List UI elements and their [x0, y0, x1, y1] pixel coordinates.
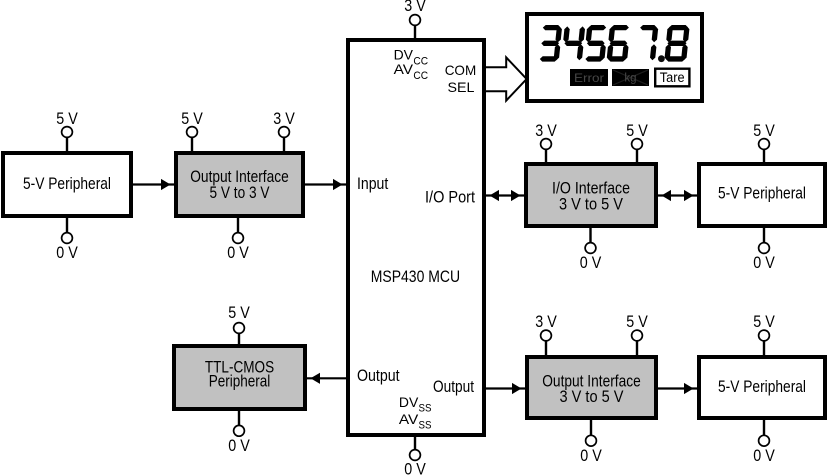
pin label Output (left) — [357, 366, 400, 385]
label: MSP430 MCU — [371, 267, 460, 286]
svg-text:3 V: 3 V — [535, 312, 557, 331]
block: Output Interface 3V to 5V — [527, 357, 656, 418]
wire: MCU output to TTL-CMOS peripheral — [307, 373, 346, 384]
terminal 0V of output interface 3-5 — [580, 418, 602, 465]
svg-text:5 V: 5 V — [626, 312, 648, 331]
terminal 3V of output interface 5-3 — [273, 109, 295, 153]
pin label AVCC — [394, 62, 429, 82]
wire: output interface 3-5 to peripheral — [658, 383, 697, 394]
pin label SEL — [448, 80, 475, 95]
svg-text:0 V: 0 V — [753, 446, 775, 465]
block: MSP430 MCU — [348, 40, 484, 435]
svg-text:Output: Output — [357, 366, 400, 385]
svg-text:0 V: 0 V — [56, 243, 78, 262]
block: 5-V Peripheral (top left) — [3, 153, 131, 216]
terminal 0V of TTL-CMOS peripheral — [228, 409, 250, 455]
terminal 0V of top-right peripheral — [753, 226, 775, 272]
terminal 0V of output interface 5-3 — [227, 216, 249, 262]
LCD annunciator kg — [612, 69, 649, 86]
svg-text:5-V Peripheral: 5-V Peripheral — [718, 377, 806, 396]
block: I/O Interface 3V to 5V — [526, 164, 656, 226]
svg-text:5 V: 5 V — [753, 121, 775, 140]
svg-text:kg: kg — [624, 73, 636, 85]
LCD display frame — [527, 14, 702, 101]
svg-text:SEL: SEL — [448, 80, 475, 95]
terminal 5V of output interface 5-3 — [181, 109, 203, 153]
svg-text:0 V: 0 V — [404, 460, 426, 475]
LCD annunciator Tare — [655, 69, 689, 87]
terminal 5V of bottom-right peripheral — [753, 312, 775, 357]
svg-text:Input: Input — [357, 174, 389, 193]
pin label DVCC — [394, 48, 429, 68]
terminal 5V of top-right peripheral — [753, 121, 775, 164]
terminal 0V of MCU — [404, 435, 426, 475]
svg-text:5-V Peripheral: 5-V Peripheral — [718, 184, 806, 203]
svg-text:0 V: 0 V — [753, 253, 775, 272]
label: Output Interface 3 V to 5 V — [542, 371, 641, 406]
terminal 5V of output interface 3-5 — [626, 312, 648, 357]
svg-text:CC: CC — [413, 56, 428, 68]
svg-text:3 V to 5 V: 3 V to 5 V — [560, 387, 624, 406]
pin label Input — [357, 174, 389, 193]
svg-text:DV: DV — [394, 48, 414, 63]
pin label AVSS — [399, 412, 432, 432]
svg-text:5 V to 3 V: 5 V to 3 V — [210, 183, 270, 202]
svg-text:AV: AV — [399, 412, 419, 427]
label: Output Interface 5 V to 3 V — [190, 167, 289, 202]
svg-text:Peripheral: Peripheral — [209, 372, 271, 391]
svg-text:5-V Peripheral: 5-V Peripheral — [23, 174, 111, 193]
pin label Output (right) — [433, 377, 474, 396]
label: 5-V Peripheral (bottom right) — [718, 377, 806, 396]
terminal 0V of bottom-right peripheral — [753, 418, 775, 465]
svg-text:5 V: 5 V — [228, 303, 250, 322]
label: 5-V Peripheral (top right) — [718, 184, 806, 203]
pin label I/O Port — [425, 188, 475, 207]
terminal 5V of TTL-CMOS peripheral — [228, 303, 250, 346]
block: 5-V Peripheral (bottom right) — [699, 357, 825, 418]
block: 5-V Peripheral (top right) — [699, 164, 825, 226]
wire: MCU output to output interface 3-5 — [486, 383, 525, 394]
svg-text:5 V: 5 V — [626, 121, 648, 140]
svg-text:3 V: 3 V — [273, 109, 295, 128]
svg-text:5 V: 5 V — [56, 109, 78, 128]
svg-text:CC: CC — [413, 70, 428, 82]
svg-text:3 V to 5 V: 3 V to 5 V — [559, 195, 623, 214]
svg-text:COM: COM — [445, 63, 477, 78]
block arrow: COM/SEL bus to LCD — [486, 57, 527, 100]
terminal 0V of I/O interface — [580, 226, 602, 272]
wire: peripheral to output interface — [133, 179, 174, 190]
svg-text:I/O Port: I/O Port — [425, 188, 475, 207]
terminal 5V of top-left peripheral — [56, 109, 78, 153]
terminal 0V of top-left peripheral — [56, 216, 78, 262]
LCD annunciator Error — [570, 69, 608, 86]
terminal 3V of I/O interface — [535, 121, 557, 164]
block: TTL-CMOS Peripheral — [174, 346, 305, 409]
pin label DVSS — [399, 395, 432, 415]
wire: I/O interface to peripheral (bidirectional) — [658, 190, 697, 201]
wire: MCU I/O port to I/O interface (bidirectional) — [486, 190, 524, 201]
svg-text:SS: SS — [419, 403, 432, 415]
svg-text:Tare: Tare — [660, 70, 685, 85]
terminal 5V of I/O interface — [626, 121, 648, 164]
terminal 3V of MCU — [404, 0, 426, 40]
svg-text:0 V: 0 V — [580, 446, 602, 465]
LCD decimal point — [658, 55, 665, 62]
block: Output Interface 5V to 3V — [176, 153, 303, 216]
label: 5-V Peripheral (top left) — [23, 174, 111, 193]
label: I/O Interface 3 V to 5 V — [552, 179, 630, 214]
svg-text:SS: SS — [419, 420, 432, 432]
wire: output interface to MCU input — [305, 179, 346, 190]
svg-text:5 V: 5 V — [181, 109, 203, 128]
svg-text:0 V: 0 V — [228, 436, 250, 455]
terminal 3V of output interface 3-5 — [535, 312, 557, 357]
svg-text:3 V: 3 V — [535, 121, 557, 140]
svg-text:AV: AV — [394, 62, 414, 77]
svg-text:DV: DV — [399, 395, 419, 410]
svg-text:Error: Error — [574, 71, 604, 85]
svg-text:Output: Output — [433, 377, 474, 396]
svg-text:MSP430 MCU: MSP430 MCU — [371, 267, 460, 286]
svg-text:3 V: 3 V — [404, 0, 426, 15]
pin label COM — [445, 63, 477, 78]
svg-text:0 V: 0 V — [227, 243, 249, 262]
svg-text:5 V: 5 V — [753, 312, 775, 331]
label: TTL-CMOS Peripheral — [205, 357, 274, 390]
LCD seven-segment digits 34567.8 — [540, 25, 690, 62]
svg-text:0 V: 0 V — [580, 253, 602, 272]
